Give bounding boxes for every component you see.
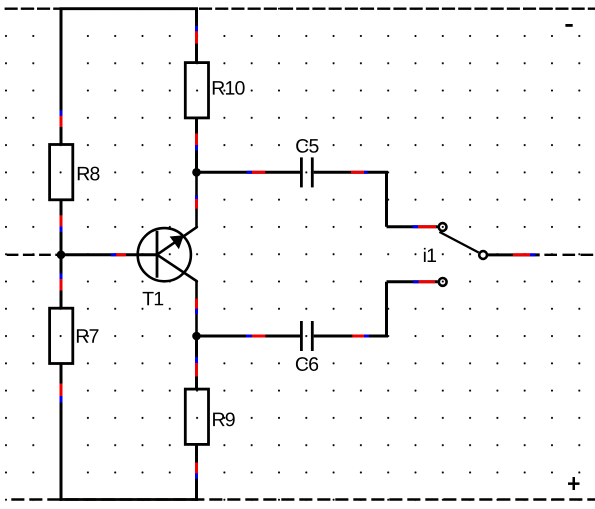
capacitor C5 plate left xyxy=(300,157,303,187)
resistor R9 body xyxy=(185,389,208,444)
wire to switch bottom terminal (386.5,282.2)-(436.8,282.2) xyxy=(387,280,438,283)
wire bottom rail solid (61,499.5)-(196.5,499.5) xyxy=(60,498,199,501)
current mark blue below R10 xyxy=(195,145,198,151)
current mark red above R8 xyxy=(60,116,63,127)
node plus rail (bottom dashed line) xyxy=(11,498,595,500)
node output rail right (dashed stub at mid-right) xyxy=(544,254,595,256)
switch i1 bottom terminal circle xyxy=(439,278,447,286)
switch i1 top terminal circle xyxy=(439,223,447,231)
current mark blue below R9 xyxy=(195,473,198,478)
current mark blue C5 left xyxy=(247,171,252,174)
resistor R7 label xyxy=(77,329,99,342)
current mark red above R7 xyxy=(60,279,63,291)
transistor T1 emitter arrow xyxy=(170,235,184,249)
current mark blue base wire xyxy=(111,253,116,256)
wire mid column node to R9 (196.5,336)-(196.5,389) xyxy=(195,336,198,389)
switch i1 blade xyxy=(439,232,478,253)
current mark red below R8 xyxy=(60,215,63,226)
wire top rail solid (61,8.7)-(196.5,8.7) xyxy=(60,7,199,10)
current mark red C5 right xyxy=(351,171,364,174)
current mark red C6 left xyxy=(252,335,266,338)
wire collector: node down and bend to transistor (196.5,172.3)-(196.5,227.3)-(157,254.7) xyxy=(157,172,197,254)
current mark blue emitter xyxy=(195,309,198,314)
current mark red above R9 xyxy=(195,363,198,377)
capacitor C6 plate left xyxy=(300,321,303,351)
current mark red switch top wire xyxy=(418,225,436,228)
current mark red C6 right xyxy=(352,335,364,338)
transistor T1 circle xyxy=(138,228,191,281)
wire node to C5 left (196.5,172.3)-(300,172.3) xyxy=(197,171,301,174)
current mark blue above R9 xyxy=(195,357,198,363)
current mark blue C6 left xyxy=(246,335,252,338)
wire left column top (61,8.7)-(61,144.5) xyxy=(60,8,63,145)
wire emitter: transistor bend down to node (157,254.7)-(196.5,281)-(196.5,336) xyxy=(157,255,197,336)
current mark blue below R8 xyxy=(60,227,63,233)
node minus rail (top dashed line) xyxy=(5,7,595,9)
resistor R10 label xyxy=(213,81,245,95)
current mark red below R10 xyxy=(195,134,198,146)
wire left column mid (61,200)-(61,308) xyxy=(60,200,63,308)
wire base (61,254.8)-(139.5,254.8) xyxy=(61,253,157,256)
current mark blue switch bottom wire xyxy=(413,280,419,283)
switch i1 common terminal circle xyxy=(479,251,487,259)
capacitor C6 label xyxy=(296,357,318,371)
node input rail left (dashed stub at mid-left) xyxy=(7,254,61,256)
current mark blue above R10 xyxy=(195,26,198,31)
label - (minus terminal) xyxy=(565,24,572,27)
current mark red switch output wire xyxy=(513,253,530,256)
switch i1 label xyxy=(424,248,436,262)
wire mid column top (196.5,8.7)-(196.5,62.5) xyxy=(195,8,198,63)
wire switch common to output (488.6,254.8)-(539.7,254.8) xyxy=(488,253,540,256)
wire mid column R10 to node (196.5,118)-(196.5,172.3) xyxy=(195,118,198,172)
current mark red below R9 xyxy=(195,463,198,474)
current mark red below R7 xyxy=(60,384,63,397)
current mark blue above R8 xyxy=(60,110,63,115)
current mark red above R10 xyxy=(195,31,198,43)
capacitor C5 plate right xyxy=(311,157,314,187)
wire to switch top terminal (386.5,226.7)-(436.8,226.7) xyxy=(387,225,438,228)
transistor T1 label xyxy=(143,292,164,305)
current mark red collector xyxy=(195,199,198,209)
current mark blue collector xyxy=(195,195,198,199)
resistor R7 body xyxy=(50,308,73,363)
wire node to C6 left (196.5,336)-(300,336) xyxy=(197,335,301,338)
current mark red base wire xyxy=(116,253,126,256)
wire mid column R9 to bottom (196.5,444.5)-(196.5,499.5) xyxy=(195,444,198,500)
current mark red emitter xyxy=(195,299,198,309)
junction node at (196.5,172.3) xyxy=(192,168,201,177)
transistor T1 base bar xyxy=(156,231,159,278)
resistor R10 body xyxy=(185,63,208,118)
resistor R9 label xyxy=(213,412,235,426)
wire C6 right to corner and up (313.7,336)-(386.5,336)-(386.5,282.2) xyxy=(314,282,387,336)
current mark blue above R7 xyxy=(60,274,63,280)
current mark red C5 left xyxy=(252,171,265,174)
current mark blue C5 right xyxy=(364,171,368,174)
junction node at (61,254.8) xyxy=(57,251,66,260)
resistor R8 body xyxy=(50,145,73,200)
capacitor C5 label xyxy=(296,139,318,153)
wire C5 right to corner and down (313.7,172.3)-(386.5,172.3)-(386.5,226.7) xyxy=(314,172,387,226)
current mark blue below R7 xyxy=(60,396,63,403)
current mark red switch bottom wire xyxy=(419,280,435,283)
current mark blue C6 right xyxy=(364,335,369,338)
label + (plus terminal) xyxy=(568,477,580,490)
current mark blue switch top wire xyxy=(413,225,419,228)
wire left column bottom (61,363.6)-(61,499.5) xyxy=(60,364,63,501)
capacitor C6 plate right xyxy=(311,321,314,351)
junction node at (196.5,336) xyxy=(192,332,201,341)
resistor R8 label xyxy=(78,167,100,181)
current mark blue switch output wire xyxy=(530,253,535,256)
